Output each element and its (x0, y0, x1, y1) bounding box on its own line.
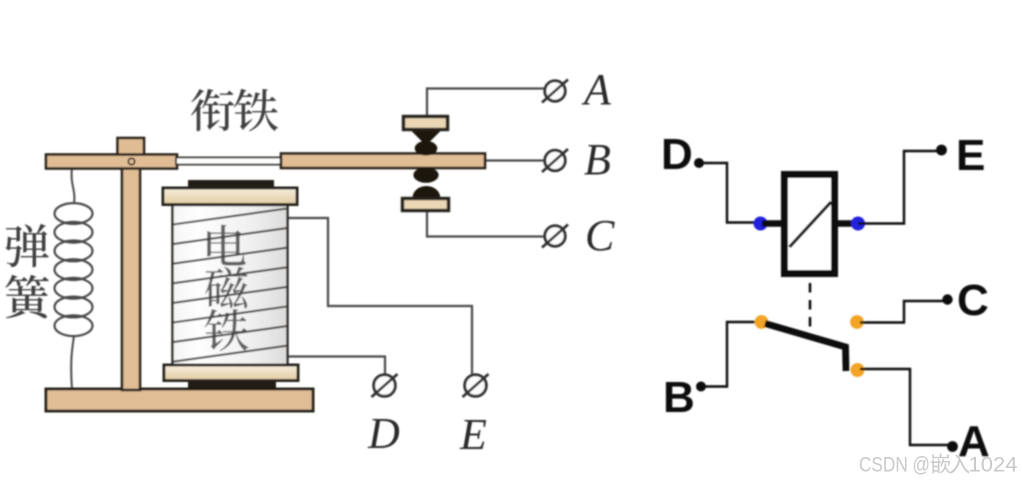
svg-text:A: A (581, 65, 612, 114)
terminal D symbol (372, 374, 398, 397)
wire B to switch (703, 322, 757, 387)
wire coil to E (858, 151, 940, 224)
svg-text:E: E (956, 131, 985, 180)
terminal dot E (936, 145, 947, 156)
svg-text:CSDN @: CSDN @ (859, 454, 930, 477)
pivot pin (128, 158, 134, 164)
label 电磁铁 (electromagnet) (205, 225, 249, 351)
armature bar right segment (281, 154, 485, 169)
base plate (46, 389, 313, 411)
wire: coil lead to terminal D (288, 357, 385, 375)
coil winding lines (173, 209, 287, 362)
coil top flange (163, 188, 297, 205)
coil bottom flange (164, 365, 298, 381)
coil box diagonal (790, 202, 832, 247)
terminal C symbol (542, 225, 568, 248)
armature thin strip (176, 158, 282, 165)
pivot post (122, 150, 140, 390)
wire: armature to terminal B (484, 159, 545, 161)
actuator dashed link (809, 283, 812, 332)
coil left pin (blue) (754, 217, 768, 231)
svg-text:1024: 1024 (969, 454, 1018, 477)
spring coils (55, 203, 93, 336)
terminal dot D (694, 158, 704, 168)
wire: upper fixed contact to terminal A (427, 89, 545, 117)
switch pivot contact (orange) (755, 315, 769, 329)
wire: coil lead to terminal E (288, 218, 472, 374)
wire: lower fixed contact to terminal C (427, 210, 545, 237)
terminal E symbol (463, 374, 489, 397)
svg-text:C: C (585, 211, 615, 260)
upper fixed contact support (404, 117, 448, 130)
watermark CSDN @嵌入1024 (859, 454, 1018, 477)
upper contact ball (415, 141, 438, 156)
switch moving contact (orange) (851, 363, 865, 377)
terminal dot B (696, 382, 706, 392)
lower contact dome (413, 186, 441, 198)
coil top pole piece (188, 180, 274, 189)
terminal dot A (947, 441, 958, 452)
wire A (860, 369, 950, 445)
coil body (windings) (173, 205, 288, 365)
svg-text:D: D (661, 130, 693, 179)
relay coil box U1 (785, 175, 835, 274)
terminal A symbol (542, 80, 568, 103)
coil right stub (835, 220, 856, 227)
upper contact funnel (412, 131, 441, 142)
svg-text:D: D (367, 409, 400, 458)
lower contact ball (413, 167, 438, 183)
terminal B symbol (542, 149, 568, 172)
coil left stub (762, 220, 784, 227)
armature bar left segment (46, 155, 177, 169)
terminal dot C (942, 294, 952, 304)
spring wire (top hook and bottom hook) (71, 168, 74, 389)
svg-text:C: C (957, 276, 989, 325)
switch NC contact (orange, to C) (850, 315, 864, 329)
wire C (860, 301, 945, 323)
svg-text:B: B (584, 135, 611, 184)
pivot post cap (118, 138, 145, 156)
svg-text:B: B (663, 373, 695, 422)
label 弹簧 (spring) (5, 224, 49, 319)
coil right pin (blue) (851, 217, 865, 231)
coil bottom pole piece (188, 382, 276, 390)
label 衔铁 (armature) (191, 89, 278, 132)
lower fixed contact support (403, 199, 449, 211)
svg-text:E: E (459, 410, 487, 459)
switch blade (765, 324, 846, 372)
wire D to coil (699, 163, 756, 223)
